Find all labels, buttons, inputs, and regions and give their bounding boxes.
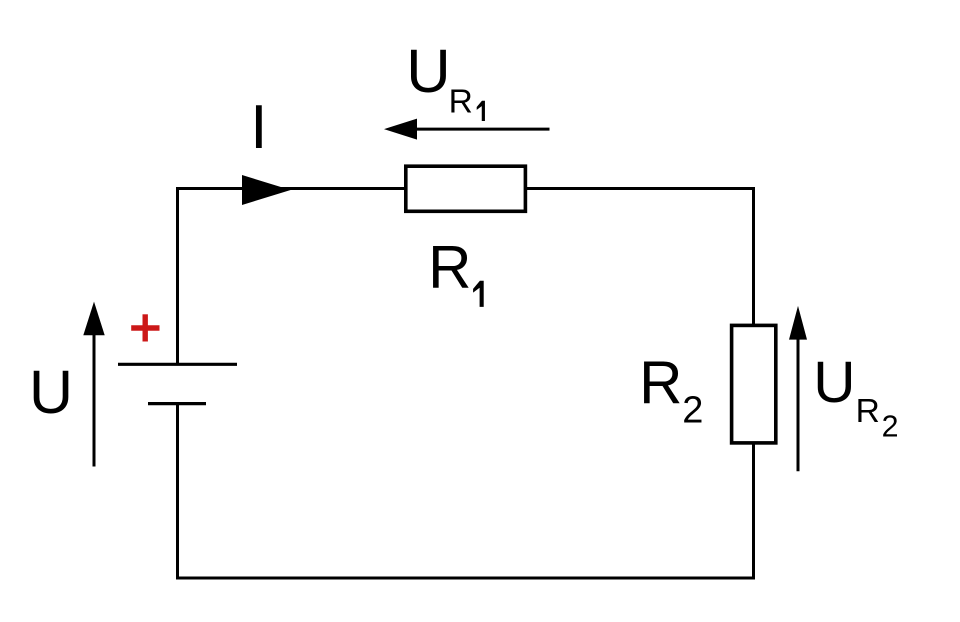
svg-text:R: R	[639, 349, 682, 416]
arrow U_R2 (points up, right of R2)	[789, 306, 807, 471]
svg-text:2: 2	[682, 390, 703, 432]
label U_R2	[813, 350, 898, 443]
resistor R2	[732, 325, 776, 443]
wire: from battery + terminal up the left side and across the top to R1	[178, 189, 406, 365]
svg-text:I: I	[250, 93, 267, 162]
svg-text:R: R	[449, 83, 473, 120]
svg-text:R: R	[428, 234, 471, 301]
battery + sign (red)	[131, 314, 159, 341]
wire: from R2 down the right side, across the bottom, and up to battery - terminal	[178, 404, 754, 578]
svg-text:2: 2	[882, 409, 899, 443]
resistor R1	[406, 166, 526, 211]
battery U: negative (short) plate	[148, 402, 206, 405]
svg-text:U: U	[29, 358, 73, 426]
arrow: current direction I on top wire	[242, 175, 291, 205]
label R1	[428, 234, 484, 307]
battery U: positive (long) plate	[118, 363, 237, 366]
label R2	[639, 349, 703, 431]
arrow U_R1 (points left above R1)	[384, 119, 550, 140]
label U_R1	[406, 37, 485, 121]
svg-text:U: U	[406, 37, 450, 106]
svg-text:R: R	[856, 393, 880, 430]
svg-text:U: U	[813, 350, 855, 415]
wire: from R1 across the top to the top-right corner and down to R2	[526, 189, 754, 326]
arrow U (battery voltage, points up)	[83, 302, 104, 467]
